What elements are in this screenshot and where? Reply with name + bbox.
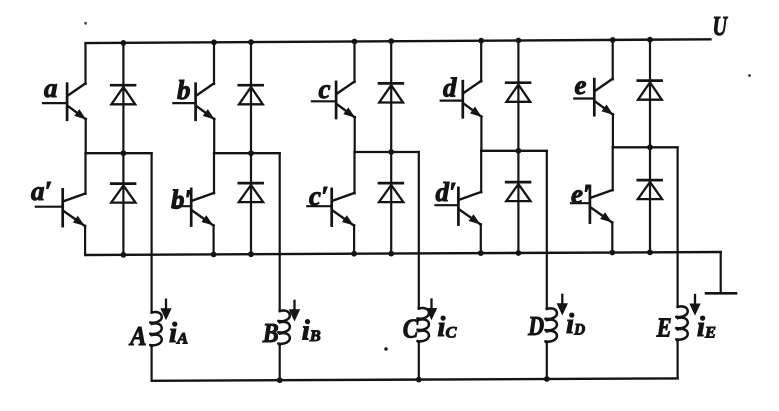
wire: e-prime emitter to negative bus: [611, 222, 613, 252]
wire: a emitter to phase node: [85, 119, 87, 153]
diode Da-prime: [111, 184, 135, 203]
svg-text:c: c: [319, 74, 331, 104]
winding E (inductor): [676, 306, 688, 340]
transistor b: [173, 83, 214, 120]
wire: b-prime collector to phase node: [213, 153, 215, 193]
junction: d-prime emitter at negative bus: [478, 250, 484, 256]
junction: c-prime emitter at negative bus: [351, 251, 357, 257]
wire: e collector to positive bus: [612, 40, 614, 80]
junction: diode Dc-prime at negative bus: [388, 251, 394, 257]
svg-text:U: U: [713, 11, 729, 41]
arrow: current iD direction: [557, 295, 567, 315]
transistor d-prime: [436, 188, 482, 225]
wire: phase B down to winding: [279, 153, 281, 311]
svg-text:B: B: [262, 318, 279, 348]
wire: diode Db branch: [250, 42, 252, 153]
wire: diode Da branch: [122, 43, 124, 153]
wire: winding D to neutral bus: [546, 343, 548, 380]
transistor e: [574, 79, 613, 116]
junction: b collector at positive bus: [211, 39, 217, 45]
junction: diode Db-prime at negative bus: [248, 251, 254, 257]
transistor b-prime: [174, 189, 214, 226]
junction: diode Da anode at phase node: [121, 150, 127, 156]
svg-text:a: a: [44, 73, 58, 103]
arrow: current iC direction: [427, 300, 437, 320]
wire: phase A down to winding: [151, 153, 153, 312]
diode Db-prime: [239, 183, 263, 202]
junction: diode De-prime at negative bus: [647, 249, 653, 255]
diode Dd: [506, 83, 530, 102]
svg-text:a′: a′: [31, 176, 52, 206]
ground: [706, 292, 736, 295]
transistor c: [312, 82, 355, 119]
junction: winding C at neutral bus: [416, 377, 422, 383]
svg-text:d′: d′: [436, 177, 457, 207]
junction: e collector at positive bus: [610, 37, 616, 43]
wire: phase E down to winding: [676, 147, 678, 307]
diode Dc-prime: [379, 183, 403, 202]
wire: phase C down to winding: [418, 152, 420, 309]
wire: e-prime collector to phase node: [612, 147, 614, 190]
wire: diode Dd branch: [517, 41, 519, 151]
wire: phase node E (mid rail): [613, 146, 678, 148]
svg-text:iA: iA: [169, 317, 188, 349]
svg-text:iE: iE: [697, 311, 716, 343]
wire: negative DC bus: [86, 252, 721, 255]
wire: d emitter to phase node: [480, 116, 482, 151]
wire: phase node C (mid rail): [355, 151, 419, 153]
wire: d collector to positive bus: [480, 41, 482, 82]
wire: winding C to neutral bus: [418, 342, 420, 379]
junction: diode Dd-prime at negative bus: [516, 250, 522, 256]
wire: b emitter to phase node: [213, 119, 215, 153]
transistor a: [43, 83, 86, 120]
svg-text:iB: iB: [302, 315, 321, 347]
wire: b collector to positive bus: [213, 42, 215, 84]
transistor d: [441, 81, 482, 118]
wire: phase node D (mid rail): [481, 150, 547, 152]
wire: phase node A (mid rail): [86, 152, 152, 154]
winding D (inductor): [545, 308, 557, 342]
junction: diode Dc at positive bus: [388, 38, 394, 44]
wire: diode De branch: [649, 40, 651, 148]
junction: winding D at neutral bus: [544, 376, 550, 382]
wire: d-prime collector to phase node: [480, 151, 482, 193]
junction: diode Db anode at phase node: [248, 150, 254, 156]
junction: diode Dc anode at phase node: [388, 149, 394, 155]
transistor a-prime: [36, 189, 86, 226]
wire: diode Dd-prime branch: [517, 151, 519, 253]
wire: c emitter to phase node: [354, 117, 356, 152]
wire: b-prime emitter to negative bus: [213, 225, 215, 254]
wire: winding B to neutral bus: [279, 345, 281, 381]
diode Dc: [379, 83, 403, 102]
wire: a-prime emitter to negative bus: [84, 226, 86, 255]
diode Da: [111, 85, 135, 104]
winding B (inductor): [278, 311, 290, 345]
winding A (inductor): [150, 312, 162, 346]
speck (scan artifact): [748, 74, 751, 77]
junction: d collector at positive bus: [478, 38, 484, 44]
junction: c collector at positive bus: [352, 39, 358, 45]
arrow: current iB direction: [290, 301, 300, 321]
wire: a collector to positive bus: [84, 43, 86, 84]
diode De: [638, 81, 662, 100]
junction: diode Da-prime at negative bus: [121, 252, 127, 258]
svg-text:e: e: [575, 70, 587, 100]
svg-text:iD: iD: [566, 308, 585, 340]
transistor c-prime: [307, 189, 354, 226]
wire: diode Db-prime branch: [250, 153, 252, 254]
transistor e-prime: [571, 186, 613, 223]
svg-text:iC: iC: [437, 311, 456, 343]
junction: winding B at neutral bus: [277, 377, 283, 383]
wire: diode Dc-prime branch: [390, 152, 392, 254]
diode Db: [239, 85, 263, 104]
wire: winding common (neutral) bus: [152, 378, 678, 380]
wire: diode De-prime branch: [649, 147, 651, 252]
junction: b-prime emitter at negative bus: [211, 252, 217, 258]
wire: diode Da-prime branch: [122, 153, 124, 255]
wire: e emitter to phase node: [612, 114, 614, 147]
wire: positive DC bus: [86, 39, 711, 43]
junction: diode De anode at phase node: [647, 144, 653, 150]
junction: diode Dd at positive bus: [516, 38, 522, 44]
wire: negative bus drop to ground: [720, 252, 722, 293]
svg-text:A: A: [128, 321, 146, 351]
svg-text:E: E: [656, 313, 672, 343]
wire: winding E to neutral bus: [676, 341, 678, 379]
speck (scan artifact): [384, 347, 387, 350]
svg-text:d: d: [443, 73, 457, 103]
svg-text:b: b: [177, 75, 191, 105]
diode Dd-prime: [506, 182, 530, 201]
svg-text:e′: e′: [571, 179, 591, 209]
diode De-prime: [638, 180, 662, 199]
wire: c-prime collector to phase node: [353, 152, 355, 193]
wire: diode Dc branch: [390, 41, 392, 152]
junction: diode Dd anode at phase node: [516, 148, 522, 154]
svg-text:C: C: [403, 314, 419, 344]
junction: e-prime emitter at negative bus: [609, 250, 615, 256]
arrow: current iE direction: [690, 295, 700, 315]
junction: diode De at positive bus: [647, 37, 653, 43]
wire: d-prime emitter to negative bus: [480, 224, 482, 253]
junction: diode Da at positive bus: [121, 40, 127, 46]
speck (scan artifact): [84, 22, 87, 25]
junction: diode Db at positive bus: [248, 39, 254, 45]
svg-text:D: D: [527, 311, 544, 341]
wire: winding A to neutral bus: [151, 346, 153, 381]
wire: a-prime collector to phase node: [84, 153, 86, 194]
wire: c-prime emitter to negative bus: [353, 225, 355, 254]
arrow: current iA direction: [161, 300, 171, 320]
wire: phase D down to winding: [546, 151, 548, 309]
wire: phase node B (mid rail): [214, 152, 280, 154]
wire: c collector to positive bus: [353, 42, 355, 83]
svg-text:c′: c′: [309, 181, 329, 211]
svg-text:b′: b′: [171, 185, 192, 215]
winding C (inductor): [417, 308, 429, 342]
